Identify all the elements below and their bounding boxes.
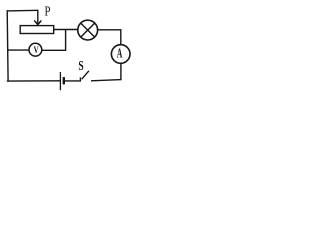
svg-text:A: A [117,46,123,61]
svg-text:S: S [78,58,83,73]
svg-text:P: P [45,3,51,18]
svg-text:V: V [34,45,39,56]
